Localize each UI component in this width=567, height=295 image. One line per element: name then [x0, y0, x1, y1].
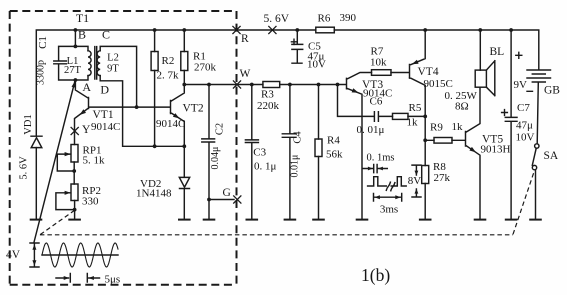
svg-text:VD1: VD1	[23, 114, 34, 134]
svg-text:330: 330	[82, 196, 99, 208]
svg-text:C2: C2	[215, 123, 226, 135]
svg-text:G: G	[223, 187, 231, 199]
svg-text:0.04μ: 0.04μ	[210, 147, 221, 170]
svg-text:0. 01μ: 0. 01μ	[357, 124, 385, 136]
svg-text:R5: R5	[409, 102, 422, 114]
svg-text:VT2: VT2	[183, 103, 204, 115]
svg-text:9V: 9V	[514, 79, 528, 91]
svg-text:220k: 220k	[257, 100, 280, 112]
svg-text:3ms: 3ms	[380, 204, 398, 216]
svg-text:9014C: 9014C	[91, 121, 120, 133]
svg-text:9014C: 9014C	[156, 118, 185, 130]
svg-text:1k: 1k	[452, 121, 464, 133]
svg-text:L2: L2	[107, 53, 119, 64]
svg-text:R3: R3	[261, 89, 274, 101]
svg-text:9015C: 9015C	[424, 78, 453, 90]
svg-text:R: R	[241, 33, 249, 45]
svg-text:BL: BL	[490, 46, 505, 58]
svg-text:C6: C6	[370, 96, 383, 108]
svg-text:T1: T1	[76, 11, 89, 25]
svg-text:SA: SA	[544, 150, 559, 162]
svg-text:0.01μ: 0.01μ	[290, 155, 301, 178]
svg-text:5μs: 5μs	[105, 274, 121, 286]
svg-text:390: 390	[340, 12, 357, 24]
svg-text:9013H: 9013H	[481, 144, 511, 156]
svg-text:9T: 9T	[107, 64, 119, 75]
svg-text:10k: 10k	[370, 57, 387, 69]
svg-text:VT1: VT1	[93, 109, 114, 121]
svg-text:C1: C1	[37, 36, 49, 49]
svg-text:GB: GB	[544, 85, 560, 97]
svg-text:0. 1ms: 0. 1ms	[367, 153, 395, 164]
svg-text:3300p: 3300p	[36, 60, 47, 85]
svg-text:1N4148: 1N4148	[136, 188, 172, 200]
svg-text:5. 1k: 5. 1k	[83, 155, 106, 167]
svg-text:R2: R2	[162, 55, 175, 67]
svg-text:10V: 10V	[307, 59, 326, 71]
svg-text:Y: Y	[82, 124, 91, 136]
svg-text:A: A	[82, 80, 91, 94]
svg-text:B: B	[78, 28, 86, 42]
svg-text:47μ: 47μ	[516, 120, 533, 132]
svg-text:C: C	[102, 28, 110, 42]
svg-text:R4: R4	[327, 135, 340, 147]
svg-text:1k: 1k	[407, 117, 419, 129]
svg-text:270k: 270k	[194, 62, 217, 74]
svg-text:C4: C4	[293, 131, 304, 144]
svg-text:R6: R6	[318, 13, 331, 25]
svg-text:8V: 8V	[408, 175, 422, 187]
svg-text:2. 7k: 2. 7k	[157, 70, 180, 82]
svg-text:VT4: VT4	[418, 66, 439, 78]
svg-text:4V: 4V	[6, 249, 21, 261]
svg-text:0. 1μ: 0. 1μ	[254, 161, 277, 173]
svg-text:10V: 10V	[516, 132, 535, 144]
svg-text:D: D	[100, 83, 109, 97]
svg-text:W: W	[240, 68, 251, 80]
svg-text:27k: 27k	[434, 172, 451, 184]
svg-text:C3: C3	[253, 147, 266, 159]
svg-text:8Ω: 8Ω	[455, 101, 469, 113]
svg-text:5. 6V: 5. 6V	[19, 156, 30, 180]
svg-text:C7: C7	[517, 102, 530, 114]
svg-text:27T: 27T	[64, 65, 82, 76]
svg-text:56k: 56k	[326, 149, 343, 161]
svg-text:R9: R9	[430, 122, 443, 134]
svg-text:5. 6V: 5. 6V	[264, 13, 290, 25]
svg-text:1(b): 1(b)	[361, 265, 390, 285]
